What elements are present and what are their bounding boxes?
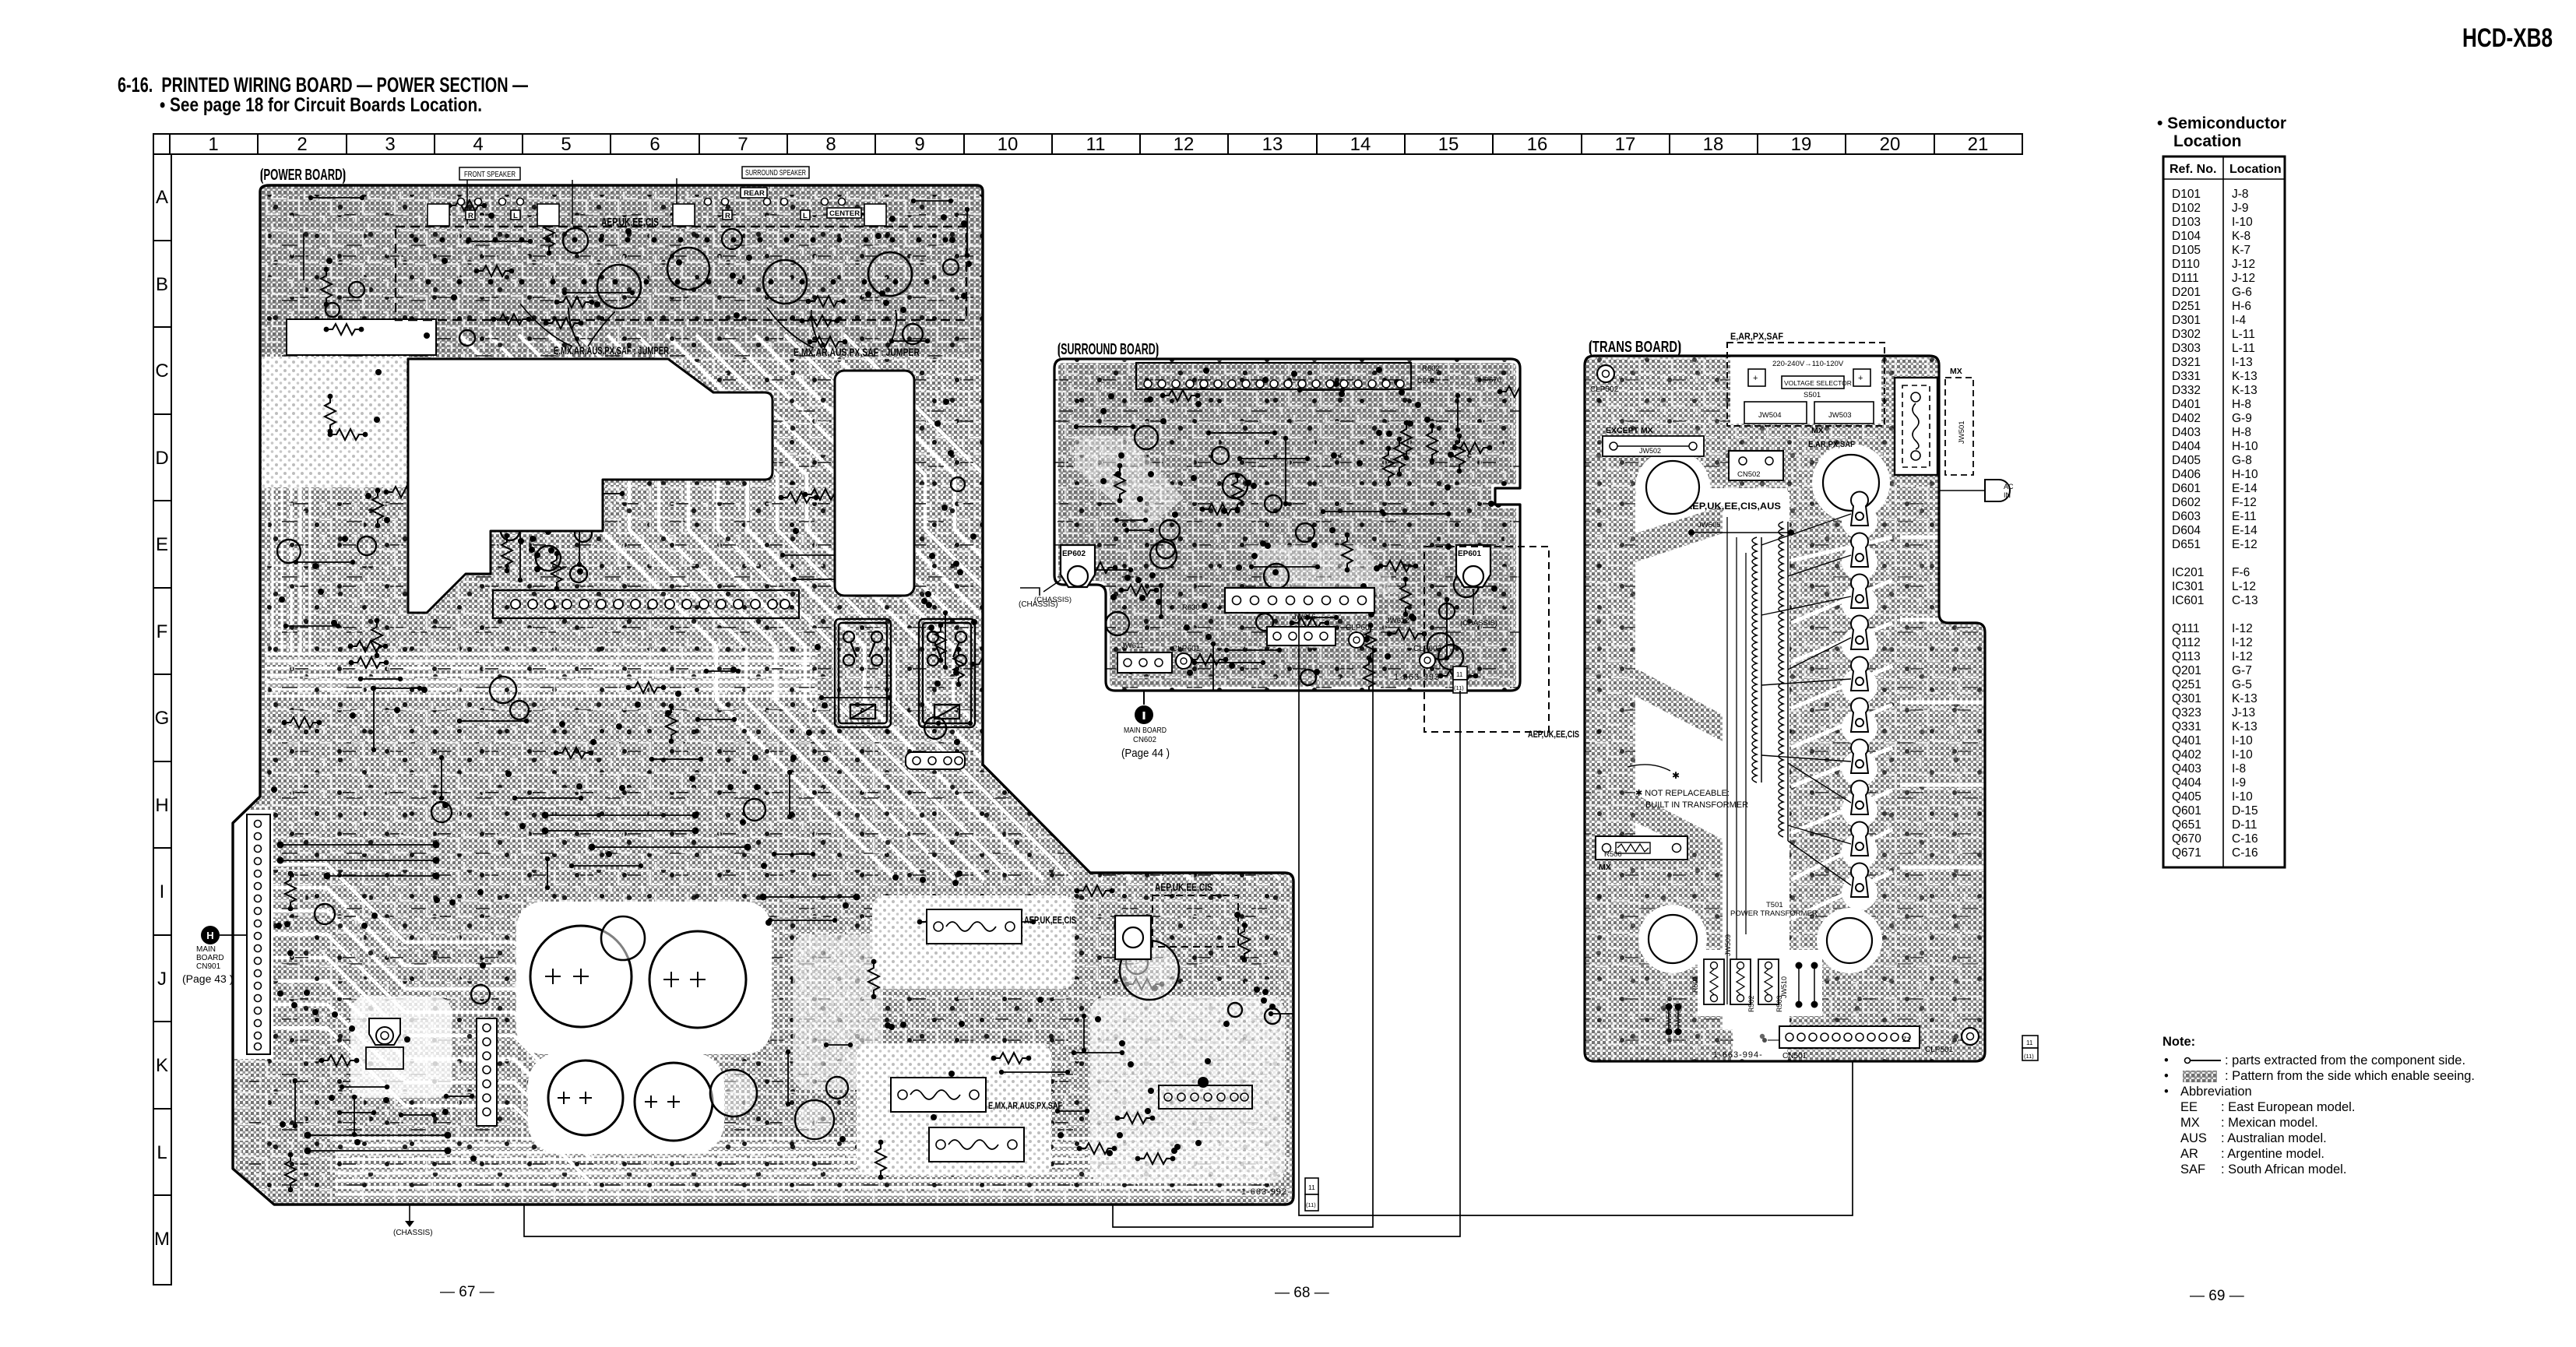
EP602 bracket [1061,545,1095,587]
svg-text:K-13: K-13 [2232,720,2258,733]
label JW505 [1688,521,1794,536]
svg-text:— 67 —: — 67 — [440,1284,494,1300]
white transformer column [1723,492,1789,1029]
white trace channels [249,335,1280,1194]
main board CN602 marker [1121,691,1170,760]
JW labels trans bottom [1665,934,1788,1028]
svg-text:D403: D403 [2172,426,2201,439]
capacitor C408 [667,248,709,290]
svg-text:15: 15 [1438,134,1459,155]
trans board outline [1585,356,1985,1061]
svg-text:R: R [725,212,730,220]
svg-text:EP602: EP602 [1062,550,1086,558]
trans noise overlay [1585,356,1985,1061]
svg-text:D401: D401 [2172,398,2201,411]
svg-text:I-9: I-9 [2232,776,2246,790]
svg-text:R502: R502 [1747,995,1755,1012]
CN602 connector [1225,588,1374,613]
svg-text:(CHASSIS): (CHASSIS) [1034,596,1072,604]
svg-text:CLP603: CLP603 [1413,645,1442,653]
capacitor C107 [710,1070,757,1117]
svg-text:D110: D110 [2172,258,2200,271]
white slot top-left [287,319,436,355]
svg-text:— 68 —: — 68 — [1275,1285,1329,1301]
svg-text:B: B [156,274,168,295]
svg-text:D604: D604 [2172,524,2201,537]
CN205 connector [906,752,965,769]
svg-text:J-12: J-12 [2232,258,2255,271]
svg-text:⦗SURROUND BOARD⦘: ⦗SURROUND BOARD⦘ [1057,341,1159,359]
svg-text:CLP601: CLP601 [1172,645,1201,653]
surround white margin [1054,359,1520,691]
svg-text:1-663-993-: 1-663-993- [1394,673,1444,682]
svg-text:⦗TRANS BOARD⦘: ⦗TRANS BOARD⦘ [1589,339,1681,357]
svg-text:MX: MX [1950,367,1962,376]
fuse F104 [929,1127,1024,1162]
svg-text:D321: D321 [2172,356,2201,369]
svg-text:✱ NOT REPLACEABLE:: ✱ NOT REPLACEABLE: [1635,789,1730,798]
svg-text:L: L [157,1142,167,1163]
svg-text:H-8: H-8 [2232,426,2251,439]
svg-text:•: • [2164,1069,2169,1083]
svg-text:11: 11 [1308,1183,1315,1191]
top copper band dense [260,185,983,354]
svg-text:•: • [2164,1085,2169,1099]
F501 fuse box [1895,378,1937,475]
svg-text:Q331: Q331 [2172,720,2201,733]
svg-text:I-13: I-13 [2232,356,2253,369]
EXCEPT MX box [1603,426,1704,456]
svg-text:10: 10 [998,134,1019,155]
svg-text:Q201: Q201 [2172,664,2201,677]
svg-text:• See page 18 for Circuit Boar: • See page 18 for Circuit Boards Locatio… [160,94,482,116]
svg-text:Q601: Q601 [2172,804,2201,818]
svg-text:EXCEPT MX: EXCEPT MX [1606,426,1653,435]
svg-text:J-12: J-12 [2232,272,2255,285]
white zone around big capacitors [516,902,772,1054]
svg-text:AEP,UK,EE,CIS: AEP,UK,EE,CIS [601,216,659,229]
svg-text:MAIN: MAIN [196,945,216,954]
svg-text:Ref. No.: Ref. No. [2170,163,2216,176]
fuse F102 [891,1078,986,1112]
svg-text:D331: D331 [2172,370,2201,383]
svg-text:E-12: E-12 [2232,538,2258,551]
svg-text:L: L [803,212,808,220]
svg-text:CLP602: CLP602 [1346,624,1374,632]
svg-text:G-6: G-6 [2232,286,2252,299]
svg-text:K: K [156,1055,168,1076]
front speaker label [459,167,572,224]
svg-text:11: 11 [2026,1039,2033,1046]
svg-text:SAF: SAF [2180,1162,2205,1176]
svg-text:: South African model.: : South African model. [2221,1162,2346,1176]
surround board copper field [1054,359,1520,691]
trans gray left column [1585,436,1645,1061]
inductor L402 [597,265,641,308]
svg-text:9: 9 [914,134,924,155]
svg-text:JW502: JW502 [1639,447,1661,455]
svg-text:R630: R630 [1182,603,1200,612]
svg-text:4: 4 [473,134,483,155]
svg-text:J-8: J-8 [2232,188,2249,201]
svg-text:(CHASSIS): (CHASSIS) [393,1229,433,1237]
page marker boxes surround [1453,666,1467,693]
svg-text:Z1: Z1 [1902,1036,1911,1043]
top-left corner solid [260,185,548,271]
svg-text:D402: D402 [2172,412,2201,425]
svg-text:D101: D101 [2172,188,2201,201]
svg-text:Location: Location [2229,163,2282,176]
svg-text:(Page 44 ): (Page 44 ) [1121,747,1170,760]
wire CN603 to power board [1113,645,1373,1227]
svg-text:EE: EE [2180,1100,2198,1114]
jumper label 1 [520,304,669,357]
svg-text:(Page 43 ): (Page 43 ) [182,972,233,985]
svg-text:Q403: Q403 [2172,762,2201,775]
svg-text:R501: R501 [1691,976,1699,993]
svg-text:1-663-994-: 1-663-994- [1713,1050,1763,1060]
vein overlay [233,185,1293,1205]
svg-text:Note:: Note: [2163,1035,2195,1049]
svg-text:BUILT IN TRANSFORMER: BUILT IN TRANSFORMER [1645,800,1748,810]
surround vein overlay [1054,359,1520,691]
resistor R502 [1730,959,1755,1012]
chassis note right [1019,588,1058,609]
svg-text:C-16: C-16 [2232,832,2258,846]
svg-text:CENTER: CENTER [829,209,860,218]
CLP502 pad [1590,365,1619,394]
svg-text:Q401: Q401 [2172,734,2201,747]
CN202 connector [477,1018,497,1126]
white zone right of caps [793,934,883,1090]
svg-text:IN: IN [2004,491,2011,499]
svg-text:E-14: E-14 [2232,482,2258,495]
svg-text:Q301: Q301 [2172,692,2201,705]
svg-text:G-9: G-9 [2232,412,2252,425]
front speaker terminals [428,199,559,227]
white fan separations [1791,537,1985,919]
svg-text:JW503: JW503 [1828,411,1852,420]
svg-text:F-6: F-6 [2232,566,2250,579]
svg-text:C602: C602 [1417,377,1435,385]
svg-text:L-12: L-12 [2232,580,2256,593]
svg-text:D251: D251 [2172,300,2201,313]
svg-text:I-12: I-12 [2232,622,2253,635]
svg-text:1: 1 [208,134,218,155]
JW pads trans bottom left [1666,962,1818,1036]
svg-text:I-8: I-8 [2232,762,2246,775]
page marker boxes power [1305,1178,1318,1211]
svg-text:D111: D111 [2172,272,2199,285]
svg-text:D-15: D-15 [2232,804,2258,818]
svg-text:IC601: IC601 [2172,594,2204,607]
svg-text:⦗POWER BOARD⦘: ⦗POWER BOARD⦘ [260,167,346,185]
svg-text:MAIN BOARD: MAIN BOARD [1124,726,1167,735]
EP201 bracket [366,1018,403,1069]
not replaceable note [1628,765,1748,810]
svg-text:J: J [157,969,167,990]
svg-text:D201: D201 [2172,286,2201,299]
svg-text:: Mexican model.: : Mexican model. [2221,1116,2318,1130]
svg-text:2: 2 [297,134,307,155]
svg-text:R602: R602 [1422,364,1440,373]
trans gray top band [1585,356,1939,488]
chassis label left [1034,580,1072,604]
svg-text:K-13: K-13 [2232,692,2258,705]
svg-text:Q111: Q111 [2172,622,2200,635]
svg-text:C-16: C-16 [2232,846,2258,860]
mounting hole bottom right [1827,918,1872,963]
page marker boxes trans [2022,1036,2038,1060]
svg-text:CN901: CN901 [196,962,221,971]
center label box [827,208,861,218]
mounting hole top right [1823,455,1879,511]
svg-text:MX: MX [1599,863,1611,872]
svg-text:Abbreviation: Abbreviation [2180,1085,2252,1099]
svg-text:D303: D303 [2172,342,2201,355]
rear label box [741,188,767,198]
IC301 connector [1159,1077,1252,1109]
trans gray mid-left belt [1631,841,1733,1067]
svg-text:21: 21 [1968,134,1989,155]
svg-text:MX: MX [2180,1116,2200,1130]
svg-text:12: 12 [1174,134,1195,155]
mounting hole bottom left [1649,915,1697,963]
CN601 connector [1117,652,1172,673]
svg-text:I-10: I-10 [2232,748,2253,761]
H main board marker [182,926,247,985]
chassis stub bottom [393,1205,433,1237]
svg-text:1-663-992-: 1-663-992- [1241,1187,1291,1197]
trans vein overlay [1585,356,1985,1061]
svg-text:F: F [157,621,168,642]
svg-text:G-8: G-8 [2232,454,2252,467]
heatsink cutout white region [408,359,772,613]
svg-text:HCD-XB8: HCD-XB8 [2462,23,2553,53]
svg-text:: Pattern from the side which: : Pattern from the side which enable see… [2225,1069,2475,1083]
capacitor C152 [649,931,746,1028]
svg-text:H-8: H-8 [2232,398,2251,411]
svg-text:D332: D332 [2172,384,2201,397]
white zone lower caps [528,1053,724,1154]
svg-text:D104: D104 [2172,230,2201,243]
chassis label right [1460,589,1497,628]
svg-text:6-16. PRINTED WIRING BOARD —: 6-16. PRINTED WIRING BOARD — POWER SECTI… [118,73,528,97]
svg-text:H: H [155,795,168,816]
svg-text:G-7: G-7 [2232,664,2252,677]
svg-text:220-240V→110-120V: 220-240V→110-120V [1772,360,1844,368]
svg-text:: East European model.: : East European model. [2221,1100,2355,1114]
capacitor C151 [530,926,632,1027]
power board copper field [233,185,1293,1205]
IC201 connector strip [493,590,799,618]
svg-text:POWER TRANSFORMER: POWER TRANSFORMER [1730,909,1818,918]
svg-text:D602: D602 [2172,496,2201,509]
svg-text:Q670: Q670 [2172,832,2201,846]
CLP603 pad [1413,645,1442,668]
svg-text:8: 8 [825,134,836,155]
svg-text:VOLTAGE SELECTOR: VOLTAGE SELECTOR [1784,379,1852,387]
white resistor area bottom [1698,950,1822,1016]
wire CN202 loop [524,691,1460,1236]
svg-text:CLP502: CLP502 [1590,385,1619,394]
svg-text:K-13: K-13 [2232,384,2258,397]
svg-text:D105: D105 [2172,244,2201,257]
svg-text:E-14: E-14 [2232,524,2258,537]
white center-left area [1635,495,1727,838]
transformer coil left [1752,537,1761,783]
svg-text:K-13: K-13 [2232,370,2258,383]
svg-text:6: 6 [649,134,660,155]
svg-text:D103: D103 [2172,216,2201,229]
svg-text:I-12: I-12 [2232,650,2253,663]
svg-text:: parts extracted from the com: : parts extracted from the component sid… [2225,1053,2465,1067]
svg-text:J-9: J-9 [2232,202,2249,215]
relay RY401 [919,619,975,727]
svg-text:I-10: I-10 [2232,216,2253,229]
trans gray right upper [1892,467,1985,631]
svg-text:I-10: I-10 [2232,790,2253,804]
svg-text:20: 20 [1880,134,1901,155]
svg-text:16: 16 [1527,134,1548,155]
svg-text:Q402: Q402 [2172,748,2201,761]
power board component symbols [271,195,1301,1193]
svg-text:AEP,UK,EE,CIS: AEP,UK,EE,CIS [1155,881,1212,893]
svg-text:11: 11 [1456,671,1463,678]
capacitor C108 [601,916,645,960]
svg-text:THP670: THP670 [1474,376,1501,385]
svg-text:D302: D302 [2172,328,2201,341]
resistor R501 [1691,959,1724,1004]
svg-text:L-11: L-11 [2232,328,2255,341]
svg-text:5: 5 [561,134,571,155]
svg-text:JW612: JW612 [1386,617,1409,625]
svg-text:M: M [154,1229,170,1250]
svg-text:E: E [156,534,168,555]
svg-text:CN602: CN602 [1133,735,1156,744]
svg-text:Q405: Q405 [2172,790,2201,804]
svg-text:AR: AR [2180,1147,2198,1161]
relay RY402 [835,619,891,727]
svg-text:17: 17 [1615,134,1636,155]
voltage selector dashed box [1727,343,1884,426]
svg-text:A: A [156,187,168,208]
svg-text:✱: ✱ [1672,770,1680,781]
IC601 connector strip [1136,363,1411,389]
svg-text:D404: D404 [2172,440,2201,453]
svg-text:D651: D651 [2172,538,2201,551]
svg-text:L: L [513,212,518,220]
component noise overlay [249,195,1285,1199]
CN502 box [1729,451,1783,480]
capacitor C117 [795,1100,834,1139]
svg-text:JW611: JW611 [1121,642,1144,650]
white around EP201 [350,997,452,1098]
AC IN stub [1939,480,2014,501]
svg-text:D-11: D-11 [2232,818,2257,832]
surround white channels [1075,436,1184,529]
svg-text:FRONT SPEAKER: FRONT SPEAKER [464,171,516,179]
svg-text:Q251: Q251 [2172,678,2201,691]
svg-text:19: 19 [1791,134,1812,155]
CN901 white strip [233,810,273,1059]
svg-text:•: • [2164,1053,2169,1067]
svg-text:G: G [155,708,170,729]
svg-text:: Argentine model.: : Argentine model. [2221,1147,2324,1161]
svg-text:D406: D406 [2172,468,2201,481]
transformer coil right [1779,522,1788,841]
svg-text:Q113: Q113 [2172,650,2201,663]
dashed option box top [396,227,966,320]
MX dashed box right [1945,367,1973,475]
fuse F103 [927,909,1022,944]
svg-text:I: I [160,881,165,902]
mounting hole top left [1646,461,1699,514]
svg-text:C-13: C-13 [2232,594,2258,607]
R506 box MX [1596,836,1687,872]
svg-text:• Semiconductor: • Semiconductor [2157,114,2286,132]
svg-text:E-11: E-11 [2232,510,2257,523]
dashed option box bottom right [1153,895,1238,947]
white inside voltage dashed box [1730,346,1881,424]
EP101 bracket right [1115,916,1151,959]
white zone bottom-right corner [1090,997,1285,1183]
trans gray central-right mass [1787,467,1985,1061]
svg-text:G-5: G-5 [2232,678,2252,691]
surround board component symbols [1068,367,1537,715]
svg-text:3: 3 [385,134,395,155]
thin wires in transformer column [1727,517,1746,1004]
svg-text:D301: D301 [2172,314,2201,327]
svg-text:SURROUND SPEAKER: SURROUND SPEAKER [745,169,806,178]
jumper label 2 [767,308,920,358]
svg-text:T501: T501 [1766,901,1783,909]
svg-text:Q404: Q404 [2172,776,2201,790]
svg-text:L-11: L-11 [2232,342,2255,355]
svg-text:JW616: JW616 [1293,613,1316,621]
svg-text:11: 11 [1086,134,1106,155]
svg-text:(11): (11) [1306,1201,1316,1208]
svg-text:— 69 —: — 69 — [2190,1288,2244,1304]
svg-text:AEP,UK,EE,CIS: AEP,UK,EE,CIS [1024,914,1076,926]
svg-text:D405: D405 [2172,454,2201,467]
svg-text:(11): (11) [2024,1053,2034,1060]
svg-text:K-8: K-8 [2232,230,2250,243]
gray diagonal bands across center-left [1635,506,1723,562]
vertical slot cutout [835,371,914,596]
svg-text:CLP501: CLP501 [1925,1046,1954,1054]
svg-text:IC301: IC301 [2172,580,2204,593]
svg-text:MX: MX [1811,426,1824,435]
voltage selector contents [1744,360,1874,424]
svg-text:C: C [155,360,168,382]
T501 power transformer label [1730,901,1818,918]
svg-text:JW509: JW509 [1724,934,1732,956]
surround small labels [1121,364,1501,650]
svg-text:D601: D601 [2172,482,2201,495]
svg-text:(11): (11) [1454,684,1464,691]
svg-text:I-4: I-4 [2232,314,2246,327]
svg-text:R506: R506 [1604,850,1622,859]
svg-text:F-12: F-12 [2232,496,2257,509]
svg-text:BOARD: BOARD [196,954,224,962]
svg-text:13: 13 [1262,134,1283,155]
surround speaker label [677,167,809,224]
svg-text:D102: D102 [2172,202,2201,215]
svg-text:Q112: Q112 [2172,636,2201,649]
svg-text:CN501: CN501 [1782,1052,1807,1060]
capacitor C110 [1120,941,1179,1000]
